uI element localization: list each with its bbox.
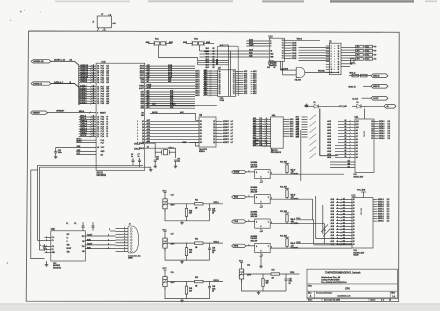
wire U18 bottom pin — [260, 228, 262, 232]
wire relay4 bottom to ground — [260, 256, 262, 264]
wire CPU SPO.1 row — [76, 139, 96, 141]
svg-text:Y3: Y3 — [282, 48, 284, 50]
svg-text:32: 32 — [93, 100, 95, 102]
svg-text:DATA.5: DATA.5 — [379, 137, 385, 140]
svg-text:ADDR.8: ADDR.8 — [80, 80, 87, 83]
svg-text:100n: 100n — [289, 281, 293, 283]
svg-text:Q3: Q3 — [142, 133, 144, 135]
svg-text:J2: J2 — [129, 224, 131, 226]
wire C19 node — [164, 287, 166, 290]
wire CPU control pin row INT1.A — [79, 118, 96, 120]
scan gray band bottom edge — [0, 304, 440, 311]
wire R11 down to bus — [159, 45, 198, 58]
svg-text:VCC: VCC — [67, 234, 70, 236]
wire diode row — [311, 105, 315, 107]
vertical net wire x300 — [300, 130, 302, 181]
svg-text:Q0: Q0 — [213, 142, 215, 144]
svg-text:DO.5: DO.5 — [290, 131, 294, 133]
svg-text:D.5: D.5 — [387, 221, 390, 223]
junction dot J7 rail — [103, 30, 105, 32]
svg-text:B.5: B.5 — [260, 123, 262, 125]
input tag TXD.B — [232, 195, 247, 198]
wires U10 right pins to DB9 — [85, 235, 115, 237]
svg-text:A.7: A.7 — [231, 120, 234, 123]
wires J5 to jumper field — [341, 47, 356, 49]
svg-text:B5: B5 — [213, 67, 215, 69]
wire U18 output to R22 — [270, 223, 287, 225]
wire gate U15 output — [305, 72, 339, 74]
svg-text:12: 12 — [93, 128, 95, 130]
svg-text:21: 21 — [338, 69, 340, 71]
svg-text:A8: A8 — [147, 80, 149, 83]
svg-text:12: 12 — [93, 123, 95, 125]
svg-text:AD6: AD6 — [147, 122, 150, 125]
wires U7 right side rows — [236, 71, 244, 73]
svg-text:17: 17 — [338, 59, 340, 61]
svg-text:CS5.B: CS5.B — [292, 58, 298, 60]
net tag +5v right of diode row — [384, 104, 396, 108]
capacitor C19b output — [209, 282, 211, 287]
wire CPU AD12 to field — [145, 72, 195, 74]
wires header lower — [341, 63, 356, 65]
svg-text:12: 12 — [97, 117, 99, 119]
wire U2A bottom pin — [271, 148, 273, 151]
svg-text:AD5: AD5 — [147, 125, 150, 128]
svg-text:2 of: 2 of — [381, 300, 385, 302]
svg-text:Q1: Q1 — [142, 139, 144, 141]
wire CPU data pin row DATA.2 — [79, 98, 96, 100]
svg-text:A.7: A.7 — [231, 138, 234, 141]
svg-text:32: 32 — [93, 90, 95, 92]
connector J2 pin stubs — [116, 228, 129, 230]
svg-text:28: 28 — [93, 65, 95, 67]
svg-text:U18 5150: U18 5150 — [251, 214, 257, 216]
title block vline rev — [389, 291, 391, 299]
svg-text:98: 98 — [274, 67, 276, 69]
svg-text:Tel.: (00043) 07471/53170-0: Tel.: (00043) 07471/53170-0 — [321, 281, 347, 284]
svg-text:AD8: AD8 — [141, 81, 144, 84]
wire CPU AD14 to field — [145, 67, 195, 69]
svg-text:X2: X2 — [147, 147, 149, 149]
wires R12 to U14 rows — [198, 60, 229, 62]
svg-text:32: 32 — [93, 93, 95, 95]
svg-text:XTAL.1: XTAL.1 — [134, 142, 140, 145]
svg-text:16: 16 — [338, 56, 340, 58]
svg-text:9B.5: 9B.5 — [204, 87, 207, 89]
driver U10 box — [51, 231, 86, 261]
wire relay1 output to RAM1 control — [287, 173, 344, 175]
svg-text:Q5: Q5 — [142, 127, 144, 129]
header J5 pin stubs left — [326, 45, 330, 47]
svg-text:SPI.CK: SPI.CK — [80, 135, 87, 137]
svg-text:28: 28 — [97, 70, 99, 72]
svg-text:T0: T0 — [106, 121, 108, 123]
svg-text:A8.5: A8.5 — [296, 136, 300, 139]
svg-text:32: 32 — [93, 98, 95, 100]
ground C10 — [55, 155, 57, 157]
svg-text:Q0: Q0 — [142, 142, 144, 144]
wires gate U15 inputs — [281, 69, 297, 71]
svg-text:P0.0: P0.0 — [101, 103, 105, 105]
svg-text:V+: V+ — [67, 238, 69, 240]
svg-text:X1: X1 — [147, 142, 149, 144]
svg-text:DS14C88: DS14C88 — [53, 266, 61, 269]
svg-text:DO.5: DO.5 — [290, 121, 294, 123]
wire CPU AD6 low row — [145, 93, 195, 95]
svg-text:9B.5: 9B.5 — [204, 81, 207, 83]
svg-text:28: 28 — [97, 80, 99, 82]
svg-text:U16 5150: U16 5150 — [251, 164, 257, 166]
ram U12 box — [352, 198, 373, 249]
svg-text:TAKPATERGMBADEN R. Jenisah: TAKPATERGMBADEN R. Jenisah — [325, 272, 361, 275]
svg-text:ADDR.7: ADDR.7 — [223, 123, 229, 126]
svg-text:R17: R17 — [272, 270, 275, 272]
wire CPU control pin row RXD0.A — [79, 131, 96, 133]
svg-text:ADDR.7: ADDR.7 — [223, 138, 229, 141]
svg-text:JP4: JP4 — [356, 58, 359, 61]
svg-text:9B.5: 9B.5 — [204, 70, 207, 72]
wire CPU AD2 low row — [145, 103, 195, 105]
svg-text:PROCESSOR: PROCESSOR — [271, 152, 282, 154]
wire CPU control pin row TMR0.A — [79, 121, 96, 123]
svg-text:12: 12 — [93, 125, 95, 127]
title block divider 3 — [307, 297, 397, 299]
wire C17 node — [164, 248, 166, 251]
wire input tag to U19 — [246, 245, 255, 247]
svg-text:AD1: AD1 — [147, 137, 150, 140]
wire CPU AD10 to field — [145, 77, 195, 79]
wire CPU address pin row ADDR.14 — [79, 67, 96, 69]
title block divider 1 — [307, 283, 397, 285]
wire ALE long row — [150, 104, 217, 106]
svg-text:ADDR.7: ADDR.7 — [223, 135, 229, 138]
svg-text:9B.5: 9B.5 — [204, 85, 207, 87]
wire CPU address pin row ADDR.12 — [79, 72, 96, 74]
svg-text:D5: D5 — [371, 133, 373, 135]
wire C17 bottom return — [165, 248, 210, 260]
wire CPU PSEN/ALE row 1 — [145, 87, 195, 89]
wire CPU control pin row SPI.CK — [79, 135, 96, 137]
svg-text:ADDR[0..15]: ADDR[0..15] — [33, 60, 44, 63]
net tag TXD — [371, 84, 388, 88]
svg-text:32: 32 — [97, 91, 99, 93]
ground C14 — [154, 165, 156, 167]
resistor R21 — [286, 188, 288, 190]
svg-text:22p: 22p — [177, 160, 180, 162]
svg-text:8282A: 8282A — [199, 150, 205, 153]
svg-text:P1.4: P1.4 — [101, 135, 105, 138]
wires RAM1 control pins lower left — [330, 161, 355, 163]
svg-text:AD7: AD7 — [147, 119, 150, 122]
svg-text:Q6: Q6 — [142, 124, 144, 126]
svg-text:22: 22 — [338, 72, 340, 74]
svg-text:28: 28 — [93, 72, 95, 74]
svg-text:T0: T0 — [106, 129, 108, 131]
svg-text:VCC_BAT: VCC_BAT — [357, 189, 366, 192]
svg-text:B.5: B.5 — [260, 145, 262, 147]
resistor R17b vertical — [262, 274, 264, 279]
bus tap slash 5 — [310, 147, 317, 152]
wire stub top of vertical pair — [222, 44, 229, 46]
svg-text:10: 10 — [331, 69, 333, 71]
wire CPU address pin row ADDR.8 — [79, 81, 96, 83]
svg-text:U17 5150: U17 5150 — [251, 189, 257, 191]
svg-text:T0: T0 — [106, 124, 108, 126]
svg-text:A15.B: A15.B — [204, 50, 210, 53]
svg-text:12: 12 — [97, 129, 99, 131]
svg-text:9B.5: 9B.5 — [204, 94, 207, 96]
wires U14 outputs — [284, 39, 291, 41]
oscillator X1 symbol — [268, 60, 275, 65]
decoupling capacitor C10 — [55, 148, 57, 152]
wires U14 enable inputs — [200, 50, 270, 52]
svg-text:D1: D1 — [200, 139, 202, 141]
svg-text:32: 32 — [93, 85, 95, 87]
svg-text:D6: D6 — [200, 124, 202, 126]
svg-text:12: 12 — [93, 116, 95, 118]
latch U8 box — [199, 117, 216, 147]
svg-text:/16: /16 — [70, 60, 72, 62]
wire CPU data pin row DATA.0 — [79, 103, 96, 105]
svg-text:28: 28 — [93, 67, 95, 69]
svg-text:JP3: JP3 — [356, 55, 359, 57]
svg-text:12: 12 — [338, 46, 340, 48]
svg-text:Q2: Q2 — [142, 136, 144, 138]
svg-text:28: 28 — [93, 81, 95, 83]
svg-text:28: 28 — [93, 79, 95, 81]
svg-text:XTAL.1: XTAL.1 — [169, 147, 175, 150]
gate U15 AND — [296, 67, 300, 77]
svg-text:D3: D3 — [357, 102, 359, 104]
capacitor C9 at header — [351, 59, 355, 63]
svg-text:58C65: 58C65 — [364, 130, 366, 137]
svg-text:B.5: B.5 — [260, 125, 262, 127]
wire CPU address pin row ADDR.15 — [79, 65, 96, 67]
wire CPU AD0 low row — [145, 107, 195, 109]
svg-text:VCC_BAT: VCC_BAT — [339, 105, 348, 108]
svg-text:D5: D5 — [200, 127, 202, 129]
svg-text:28: 28 — [97, 73, 99, 75]
svg-text:32: 32 — [97, 94, 99, 96]
svg-text:AD2: AD2 — [147, 134, 150, 137]
svg-text:9B.5: 9B.5 — [204, 72, 207, 74]
svg-text:GND: GND — [182, 142, 187, 144]
wire relay3 output right — [287, 224, 324, 244]
supply rail verticals to MAX232 — [37, 165, 39, 240]
svg-text:1u: 1u — [138, 156, 140, 158]
svg-text:URESET: URESET — [33, 112, 41, 114]
svg-text:DO.5: DO.5 — [290, 124, 294, 126]
svg-text:A.7: A.7 — [231, 135, 234, 138]
svg-text:D3: D3 — [371, 128, 373, 130]
svg-text:URESET: URESET — [56, 111, 65, 113]
svg-text:28: 28 — [97, 68, 99, 70]
svg-text:28: 28 — [93, 69, 95, 71]
svg-text:T0: T0 — [106, 117, 108, 119]
vertical wires U14 bottom to gate field — [280, 61, 282, 70]
wire CPU AD3 low row — [145, 100, 195, 102]
title block vline date — [321, 298, 323, 302]
svg-text:10: 10 — [389, 300, 391, 302]
svg-text:ALE.P: ALE.P — [139, 87, 145, 90]
svg-text:T2IN: T2IN — [67, 252, 70, 254]
svg-text:T0: T0 — [106, 131, 108, 133]
svg-text:Y6: Y6 — [282, 56, 284, 58]
svg-text:Q3: Q3 — [213, 133, 215, 135]
wire U19 output to R23 — [270, 247, 287, 249]
svg-text:D2: D2 — [200, 136, 202, 138]
wire CLOCK tag row — [362, 97, 372, 99]
wire jumper row 3 out — [373, 58, 377, 60]
wire DATA bus to fanout — [51, 83, 75, 85]
svg-text:P2.0: P2.0 — [101, 82, 105, 84]
svg-text:9Y.5: 9Y.5 — [244, 93, 247, 95]
ram U11 box — [355, 119, 374, 173]
net tag end TX row — [371, 74, 388, 78]
buffer U7 box — [218, 70, 236, 97]
svg-text:MOD..13: MOD..13 — [350, 73, 356, 75]
wire ALE to latch U8 — [150, 114, 199, 121]
svg-text:32: 32 — [93, 102, 95, 104]
wire enclosure RAM2 routing — [316, 196, 350, 239]
bus tag ADDR[0..15] — [31, 60, 51, 63]
bus tap slash 3 — [310, 134, 317, 139]
wires RAM2 right pins — [373, 199, 378, 201]
svg-text:9B.5: 9B.5 — [204, 90, 207, 92]
svg-text:9B.5: 9B.5 — [206, 67, 209, 69]
svg-text:8XC32FB: 8XC32FB — [97, 175, 107, 177]
svg-text:C1+: C1+ — [52, 237, 55, 239]
svg-text:Q5: Q5 — [213, 127, 215, 129]
scan speck marks upper-left margin — [20, 11, 22, 13]
wire CS pair into RAM2 — [296, 243, 352, 245]
address bus vertical to RAM1 — [319, 109, 321, 156]
wire CPU AD11 to field — [145, 74, 195, 76]
svg-text:20: 20 — [338, 67, 340, 69]
svg-text:B.5: B.5 — [260, 137, 262, 139]
eprom U2A box — [271, 117, 284, 148]
title block divider 2 — [307, 290, 397, 292]
svg-text:C13: C13 — [171, 194, 174, 196]
svg-text:B.5: B.5 — [260, 133, 262, 135]
svg-text:RESET: RESET — [100, 112, 107, 114]
svg-text:ADDR.7: ADDR.7 — [223, 141, 229, 144]
ground U10 — [46, 261, 48, 263]
svg-text:DO.5: DO.5 — [290, 129, 294, 131]
svg-text:AD4: AD4 — [147, 128, 150, 131]
svg-text:A.7: A.7 — [231, 141, 234, 144]
supply rail pair horizontal — [38, 164, 143, 166]
svg-text:A.7: A.7 — [231, 129, 234, 132]
svg-text:74LS08: 74LS08 — [295, 79, 301, 82]
svg-text:WR8.A: WR8.A — [79, 110, 85, 113]
svg-text:TR8: TR8 — [255, 143, 258, 145]
wire CPU control pin row CNT1.A — [79, 128, 96, 130]
svg-text:9B.5: 9B.5 — [204, 76, 207, 78]
wire URESET to CPU — [48, 112, 97, 114]
svg-text:ADDR 0..15: ADDR 0..15 — [54, 59, 66, 62]
svg-text:B5: B5 — [213, 48, 215, 50]
svg-text:32: 32 — [97, 98, 99, 100]
svg-text:A10B: A10B — [249, 44, 254, 47]
svg-text:9B.5: 9B.5 — [204, 83, 207, 85]
svg-text:58C256: 58C256 — [361, 207, 363, 215]
wire C21 bottom return — [242, 279, 287, 291]
svg-text:28: 28 — [97, 66, 99, 68]
wire C19 bottom return — [165, 287, 210, 299]
bus tap slash 2 — [310, 127, 317, 132]
svg-text:JP1: JP1 — [356, 46, 359, 48]
bus slash taps into RAM1 bus — [304, 118, 314, 120]
capacitor C14 — [154, 159, 157, 161]
wires U10 left pins — [45, 237, 51, 239]
third rail from border — [31, 170, 45, 259]
wire GND jog at DB9 top — [110, 230, 116, 232]
wire jumper row 1 out — [373, 50, 377, 52]
ground C17 — [181, 260, 183, 262]
svg-text:DO.5: DO.5 — [290, 136, 294, 138]
svg-text:Y0: Y0 — [282, 40, 284, 42]
optocoupler U17 box — [255, 195, 271, 204]
svg-text:9B.5: 9B.5 — [204, 92, 207, 94]
svg-text:B.5: B.5 — [260, 130, 262, 132]
capacitor C15 — [174, 159, 177, 161]
optocoupler U18 box — [255, 219, 271, 228]
bus tap slash 1 — [310, 121, 317, 126]
wire CPU address pin row ADDR.10 — [79, 77, 96, 79]
wire CPU AD5 low row — [145, 96, 195, 98]
svg-text:AD0: AD0 — [141, 107, 144, 110]
svg-text:C1: C1 — [66, 223, 68, 225]
cpu U1 box — [96, 63, 145, 170]
resistor R11b vertical — [186, 204, 188, 209]
net tag URESET — [31, 111, 48, 114]
svg-text:13: 13 — [338, 48, 340, 50]
wire CPU data pin row DATA.1 — [79, 100, 96, 102]
wire U17 output to R21 — [270, 198, 287, 200]
svg-text:CI.5A: CI.5A — [220, 99, 225, 102]
ground C15 — [175, 165, 177, 167]
capacitor C21b output — [285, 274, 287, 279]
wire CPU AD4 low row — [145, 98, 195, 100]
svg-text:DO.5: DO.5 — [290, 133, 294, 135]
svg-text:D3: D3 — [200, 133, 202, 135]
svg-text:K5.3: K5.3 — [366, 55, 370, 57]
svg-text:D1: D1 — [371, 124, 373, 126]
svg-text:RXD.3: RXD.3 — [214, 280, 219, 282]
svg-text:100n: 100n — [212, 211, 216, 213]
diode D3 battery — [357, 104, 361, 108]
svg-text:ADDR.7: ADDR.7 — [223, 126, 229, 129]
wire CPU AD7 low row — [145, 91, 195, 93]
svg-text:Q1: Q1 — [213, 139, 215, 141]
wire J7 pin to border rail — [103, 28, 105, 31]
wire CPU PSEN/ALE row 0 — [145, 85, 195, 87]
wire U16 bottom pin — [260, 179, 262, 183]
svg-text:TRIG.8: TRIG.8 — [297, 39, 302, 41]
svg-text:ADDR.7: ADDR.7 — [223, 132, 229, 135]
svg-text:K5.4: K5.4 — [366, 58, 370, 61]
svg-text:Document Number: Document Number — [316, 291, 332, 294]
svg-text:/8: /8 — [70, 82, 71, 84]
wire input tag to U17 — [246, 196, 255, 198]
svg-text:12: 12 — [97, 134, 99, 136]
svg-text:K5.1: K5.1 — [366, 46, 370, 48]
svg-text:T0: T0 — [106, 136, 108, 138]
connector J2 DB9 shape — [128, 226, 139, 253]
svg-text:DATA 0..7: DATA 0..7 — [54, 81, 64, 84]
wire CPU AD1 low row — [145, 105, 195, 107]
